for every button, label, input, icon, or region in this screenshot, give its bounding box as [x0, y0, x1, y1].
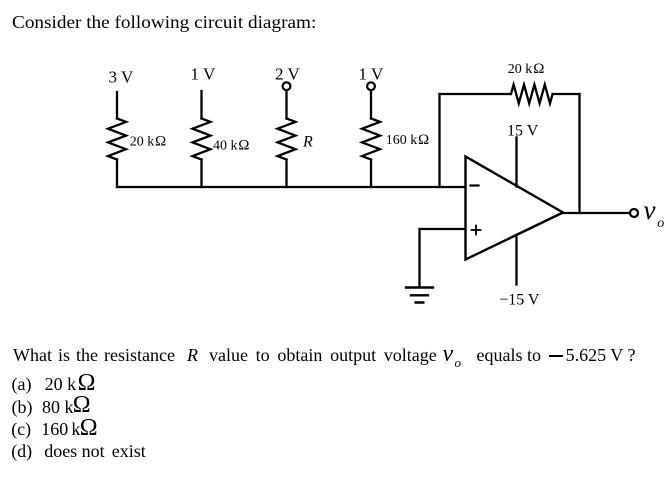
ground	[406, 288, 433, 303]
svg-text:1 V: 1 V	[191, 65, 216, 84]
svg-text:20 k: 20 k	[508, 62, 533, 77]
wire: +15V supply to op-amp	[515, 138, 517, 187]
wire: 1V source to R2 top	[200, 91, 202, 119]
terminal circle vo	[630, 209, 638, 217]
svg-text:Ω: Ω	[155, 133, 166, 149]
svg-text:2 V: 2 V	[275, 65, 300, 84]
op-amp U1 triangle	[466, 157, 564, 260]
terminal circle 1V (branch 4)	[367, 82, 375, 90]
wire: 1V terminal to R4 top	[370, 90, 372, 118]
resistor Rf 20 kOhm (feedback)	[511, 85, 553, 104]
node label vo	[644, 195, 665, 231]
svg-text:Ω: Ω	[238, 137, 249, 153]
option c	[11, 420, 31, 438]
wire: feedback right vertical to output	[578, 94, 580, 213]
wire: 2V terminal to R top	[285, 90, 287, 118]
wire: op-amp output	[563, 212, 630, 214]
option b	[12, 398, 33, 416]
svg-text:1 V: 1 V	[359, 65, 384, 84]
wire: R1 bottom to bus	[116, 160, 118, 188]
wire: R bottom to bus	[285, 160, 287, 188]
wire: op-amp to -15V supply	[515, 236, 517, 285]
resistor R2 40 kOhm	[193, 119, 211, 160]
option d	[11, 442, 32, 460]
wire: feedback top right segment	[553, 93, 580, 95]
svg-text:20 k: 20 k	[130, 134, 155, 149]
svg-text:v: v	[644, 195, 656, 225]
wire: non-inverting input down to ground	[418, 229, 420, 287]
svg-text:Ω: Ω	[418, 132, 429, 148]
wire: summing bus to inverting input	[117, 186, 466, 188]
svg-text:3 V: 3 V	[109, 68, 134, 87]
resistor R1 20 kOhm	[108, 119, 126, 160]
svg-text:160 k: 160 k	[386, 133, 418, 148]
svg-text:R: R	[302, 134, 313, 151]
svg-text:−15 V: −15 V	[499, 292, 540, 309]
wire: R2 bottom to bus	[200, 160, 202, 188]
op-amp minus sign	[471, 184, 479, 186]
svg-text:Ω: Ω	[533, 61, 544, 77]
wire: 3V source to R1 top	[116, 92, 118, 119]
svg-text:15 V: 15 V	[507, 123, 539, 140]
wire: feedback left vertical	[438, 94, 440, 187]
resistor R4 160 kOhm	[362, 119, 380, 160]
title text	[12, 13, 316, 31]
question text	[13, 346, 175, 364]
svg-text:o: o	[657, 216, 664, 231]
option a	[12, 375, 32, 393]
wire: non-inverting input horizontal	[420, 228, 466, 230]
resistor R (unknown)	[278, 119, 296, 160]
wire: R4 bottom to bus	[370, 160, 372, 188]
wire: feedback top left segment	[440, 93, 512, 95]
svg-text:40 k: 40 k	[213, 138, 238, 153]
terminal circle 2V	[283, 82, 291, 90]
op-amp plus sign	[472, 226, 481, 235]
